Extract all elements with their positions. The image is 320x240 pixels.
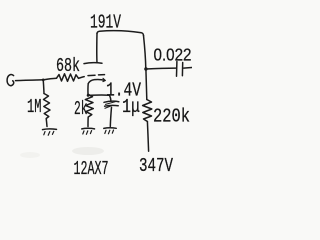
wire down to C2 — [110, 95, 111, 101]
ground (1M) — [43, 128, 57, 131]
wire node A to 68k — [43, 78, 56, 80]
svg-text:0.022: 0.022 — [154, 45, 192, 65]
capacitor C2 1u top plate — [104, 101, 119, 102]
resistor 68k — [57, 74, 79, 82]
faint scan smudge — [72, 147, 104, 155]
wire right vertical top — [144, 36, 146, 69]
svg-text:1μ: 1μ — [122, 96, 140, 118]
svg-text:68k: 68k — [56, 55, 80, 77]
triode U1 cathode — [88, 79, 105, 83]
resistor 2k — [85, 94, 93, 126]
input terminal — [7, 75, 14, 86]
cathode lead — [87, 84, 89, 94]
wire C2 to ground — [110, 107, 111, 126]
wire input to node A — [16, 79, 44, 82]
svg-text:347V: 347V — [139, 155, 173, 177]
capacitor C1 0.022 plates — [177, 62, 183, 77]
svg-text:2k: 2k — [74, 98, 88, 120]
top wire plate to right — [97, 31, 144, 36]
node K junction dot — [87, 94, 90, 97]
ground (2k) — [82, 127, 95, 130]
ground (C2) — [104, 127, 116, 130]
wire node A down — [42, 80, 45, 94]
wire 68k to grid — [79, 77, 85, 79]
node P junction dot — [144, 67, 147, 70]
wire node P to C1 — [146, 67, 176, 70]
capacitor C2 1u bottom plate — [105, 104, 119, 107]
resistor 1M — [44, 94, 51, 127]
node A junction dot — [42, 79, 45, 82]
triode U1 grid (dashed) — [88, 75, 105, 76]
wire 220k to 347V — [147, 122, 148, 152]
svg-text:12AX7: 12AX7 — [74, 158, 109, 180]
wire node P down to 220k — [145, 69, 148, 100]
svg-text:1M: 1M — [27, 96, 42, 118]
resistor 220k — [143, 100, 152, 122]
triode U1 plate lead — [96, 33, 98, 62]
triode U1 plate bar — [84, 62, 102, 65]
svg-text:220k: 220k — [153, 106, 190, 128]
wire C1 out — [184, 67, 192, 70]
wire cathode to C2 — [88, 94, 109, 96]
svg-text:191V: 191V — [90, 12, 121, 34]
